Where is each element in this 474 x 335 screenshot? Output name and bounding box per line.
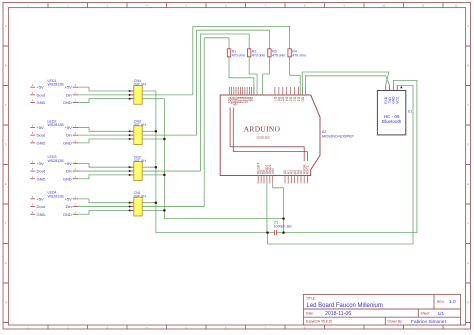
svg-text:Date:: Date: xyxy=(306,312,314,316)
junction dot GND bus at CN2 xyxy=(163,174,166,177)
svg-text:WS2812B: WS2812B xyxy=(48,194,65,198)
junction dot +5V bus at CN1 xyxy=(155,201,158,204)
svg-text:D7: D7 xyxy=(273,97,277,102)
netflag arrow above HC-06 VCC xyxy=(400,86,402,89)
wire arduino GND pin jog to GND rail xyxy=(273,183,284,232)
wire GND rail from C1 right to HC-06 GND xyxy=(277,81,417,233)
svg-text:Dout: Dout xyxy=(37,92,46,97)
resistor R4 470 ohm xyxy=(288,49,306,58)
svg-text:D6: D6 xyxy=(277,97,281,102)
svg-text:D8: D8 xyxy=(249,97,253,102)
svg-text:+5V: +5V xyxy=(65,85,73,90)
svg-text:GND: GND xyxy=(63,100,72,105)
svg-text:Bluetooth: Bluetooth xyxy=(382,119,402,124)
svg-text:470 ohm: 470 ohm xyxy=(272,53,285,57)
junction dot C1 right node xyxy=(282,231,285,234)
svg-text:Fabrice Simonet: Fabrice Simonet xyxy=(411,319,447,325)
wire arduino D1 to HC-06 RXD with crossover xyxy=(302,72,389,95)
svg-text:470 ohm: 470 ohm xyxy=(232,53,245,57)
svg-text:ASCL: ASCL xyxy=(306,165,310,174)
svg-text:Led Board Faucon Millenium: Led Board Faucon Millenium xyxy=(307,303,383,309)
svg-text:D0: D0 xyxy=(300,97,304,102)
wire R1 bottom to arduino pin xyxy=(229,57,254,95)
svg-text:Din: Din xyxy=(66,169,72,174)
svg-text:2018-11-06: 2018-11-06 xyxy=(325,311,351,317)
arduino internal SDA line xyxy=(230,108,304,162)
wire LED1 +5V pin to CN4 pin1 xyxy=(78,87,156,91)
svg-text:1000uF 16v: 1000uF 16v xyxy=(274,225,292,229)
svg-text:U2: U2 xyxy=(322,130,326,134)
svg-text:D: D xyxy=(5,143,7,147)
junction dot C1 left node xyxy=(266,231,269,234)
wire R3 bottom to arduino pin xyxy=(263,57,270,95)
wire LED4 Din pin to CN1 pin2 and resistor net xyxy=(78,206,204,208)
wire arduino 5V pin drop to C1 left xyxy=(266,183,268,232)
svg-text:WS2812B: WS2812B xyxy=(48,83,65,87)
wire arduino D0 to HC-06 TXD with crossover xyxy=(306,76,390,95)
svg-text:D2: D2 xyxy=(293,97,297,102)
svg-text:E: E xyxy=(5,182,7,186)
LED strip connector symbol LED4 WS2812B xyxy=(30,191,78,217)
svg-text:GND: GND xyxy=(63,176,72,181)
svg-text:U1: U1 xyxy=(408,110,413,114)
svg-text:Din: Din xyxy=(66,133,72,138)
wire +5V bus vertical to C1 left xyxy=(156,91,274,233)
svg-text:REV:: REV: xyxy=(437,300,445,304)
svg-text:JST XH: JST XH xyxy=(134,83,147,87)
resistor R1 470 ohm xyxy=(227,49,245,58)
wire LED4 GND pin to CN1 pin3 xyxy=(78,210,164,214)
svg-text:TITLE:: TITLE: xyxy=(306,297,316,301)
LED strip connector symbol LED3 WS2812B xyxy=(30,155,78,181)
svg-text:+5V: +5V xyxy=(37,125,45,130)
svg-text:JST XH: JST XH xyxy=(134,159,147,163)
LED strip connector symbol LED2 WS2812B xyxy=(30,119,78,145)
arduino U2 body outline xyxy=(220,95,320,176)
junction dot GND bus at CN3 xyxy=(163,138,166,141)
svg-text:470 ohm: 470 ohm xyxy=(252,53,265,57)
LED strip connector symbol LED1 WS2812B xyxy=(30,79,78,105)
svg-text:+5V: +5V xyxy=(37,85,45,90)
resistor R2 470 ohm xyxy=(248,49,266,58)
svg-text:+5V: +5V xyxy=(65,161,73,166)
junction dot GND bus at CN1 xyxy=(163,209,166,212)
svg-text:E: E xyxy=(467,182,469,186)
svg-text:1.0: 1.0 xyxy=(449,299,456,305)
wire LED3 +5V pin to CN2 pin1 xyxy=(78,163,156,167)
wire net D11 CN3-Din l-vertical and top run to R3 xyxy=(197,30,270,135)
title block xyxy=(303,294,460,325)
arduino bottom-left pin header xyxy=(256,162,275,184)
svg-text:D4: D4 xyxy=(285,97,289,102)
svg-text:D1: D1 xyxy=(297,97,301,102)
svg-text:G: G xyxy=(467,261,469,265)
svg-text:C: C xyxy=(5,103,7,107)
arduino top-left pin header xyxy=(227,87,254,106)
svg-text:B: B xyxy=(5,64,7,68)
svg-text:470 ohm: 470 ohm xyxy=(292,53,305,57)
svg-text:VIN: VIN xyxy=(271,168,275,174)
svg-text:GND: GND xyxy=(63,212,72,217)
svg-text:Din: Din xyxy=(66,92,72,97)
svg-text:Sheet:: Sheet: xyxy=(421,312,431,316)
wire LED1 Din pin to CN4 pin2 and resistor net xyxy=(78,94,193,96)
svg-text:EasyEDA V5.8.20: EasyEDA V5.8.20 xyxy=(306,320,332,324)
svg-text:+5V: +5V xyxy=(65,125,73,130)
junction dot +5V bus at CN2 xyxy=(155,166,158,169)
svg-text:A: A xyxy=(5,24,7,28)
svg-text:+5V: +5V xyxy=(37,161,45,166)
svg-text:Dout: Dout xyxy=(37,133,46,138)
wire LED1 GND pin to CN4 pin3 xyxy=(78,99,164,103)
wire +5V lower rail from C1 left to HC-06 VCC xyxy=(268,85,414,244)
svg-text:B: B xyxy=(467,64,469,68)
arduino top-right pin header xyxy=(273,87,306,101)
svg-text:1/1: 1/1 xyxy=(438,311,445,317)
svg-text:GND: GND xyxy=(37,176,46,181)
svg-text:Dout: Dout xyxy=(37,169,46,174)
svg-text:H: H xyxy=(5,301,7,305)
junction dot GND rail at C1 column xyxy=(282,217,285,220)
svg-text:Dout: Dout xyxy=(37,204,46,209)
svg-text:JST XH: JST XH xyxy=(134,123,147,127)
svg-text:GND: GND xyxy=(37,140,46,145)
wire net D9 CN1-Din l-vertical and top run to R1 xyxy=(204,38,229,207)
svg-text:ARDUINO-NODIPEP: ARDUINO-NODIPEP xyxy=(322,135,355,139)
svg-text:WS2812B: WS2812B xyxy=(48,123,65,127)
svg-text:A: A xyxy=(467,24,469,28)
wire net D12 CN4-Din l-vertical and top run to R4 xyxy=(193,26,290,94)
svg-text:C: C xyxy=(467,103,469,107)
wire LED4 +5V pin to CN1 pin1 xyxy=(78,199,156,203)
arduino internal SCL line xyxy=(233,108,307,162)
connector CN3 JST XH xyxy=(129,119,147,144)
wire LED2 GND pin to CN3 pin3 xyxy=(78,139,164,143)
wire GND bus vertical to rail xyxy=(164,99,283,219)
wire LED3 GND pin to CN2 pin3 xyxy=(78,175,164,179)
svg-text:+5V: +5V xyxy=(65,196,73,201)
wire LED2 Din pin to CN3 pin2 and resistor net xyxy=(78,134,196,136)
svg-text:GND: GND xyxy=(37,212,46,217)
connector CN4 JST XH xyxy=(129,79,147,104)
svg-text:ARDUINO: ARDUINO xyxy=(244,124,281,133)
svg-text:Din: Din xyxy=(66,204,72,209)
svg-text:GND: GND xyxy=(37,100,46,105)
connector CN2 JST XH xyxy=(129,155,147,180)
bluetooth module U1 HC-06 xyxy=(377,85,412,135)
svg-text:D: D xyxy=(467,143,469,147)
svg-text:+5V: +5V xyxy=(37,196,45,201)
svg-text:D5: D5 xyxy=(281,97,285,102)
wire R4 bottom to arduino pin xyxy=(290,57,301,95)
wire net D10 CN2-Din l-vertical and top run to R2 xyxy=(200,34,249,171)
svg-text:VCC: VCC xyxy=(395,96,399,104)
wire LED3 Din pin to CN2 pin2 and resistor net xyxy=(78,170,200,172)
svg-text:G: G xyxy=(5,261,7,265)
resistor R3 470 ohm xyxy=(268,49,286,58)
svg-text:H: H xyxy=(467,301,469,305)
svg-text:WS2812B: WS2812B xyxy=(48,159,65,163)
wire R2 bottom to arduino pin xyxy=(249,57,257,95)
connector CN1 JST XH xyxy=(129,191,147,216)
junction dot +5V bus at CN3 xyxy=(155,130,158,133)
capacitor C1 1000uF 16v xyxy=(274,221,292,236)
wire LED2 +5V pin to CN3 pin1 xyxy=(78,127,156,131)
svg-text:JST XH: JST XH xyxy=(134,194,147,198)
svg-text:UNO R3: UNO R3 xyxy=(257,136,270,140)
svg-text:D3: D3 xyxy=(289,97,293,102)
svg-text:Drawn By:: Drawn By: xyxy=(388,320,403,324)
svg-text:GND: GND xyxy=(63,140,72,145)
arduino bottom-right pin header xyxy=(283,164,309,183)
